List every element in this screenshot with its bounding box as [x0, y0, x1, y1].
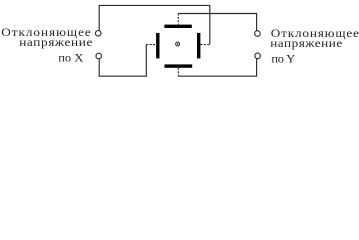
wire: dashed lead up into bottom plate: [177, 68, 179, 76]
label: Отклоняющее напряжение по X: [1, 26, 93, 65]
plate Y top (horizontal deflection plate): [164, 25, 191, 28]
plate X left (vertical deflection plate): [156, 33, 159, 59]
label: Отклоняющее напряжение по Y: [270, 27, 359, 66]
svg-text:по X: по X: [58, 51, 84, 64]
wire: dashed lead down into top plate: [177, 14, 179, 25]
plate X right (vertical deflection plate): [197, 33, 200, 59]
wire: terminal X1 up, across top, down to right plate: [99, 5, 210, 44]
svg-text:по Y: по Y: [271, 52, 295, 65]
plate Y bottom (horizontal deflection plate): [165, 64, 193, 67]
svg-text:напряжение: напряжение: [270, 37, 343, 50]
svg-text:напряжение: напряжение: [19, 36, 93, 49]
wire: terminal Y2 down, along bottom, to bottom plate lead: [178, 59, 256, 76]
wire: terminal X2 down, along bottom, up to left plate: [99, 45, 146, 77]
wire: terminal Y1 up, across to top plate lead: [178, 14, 256, 31]
wire: dashed stub into left plate: [146, 44, 156, 46]
terminal Y2 (bottom-right): [255, 53, 261, 59]
wire: dashed stub into right plate: [200, 44, 209, 46]
terminal Y1 (top-right): [255, 31, 261, 37]
electron beam symbol (circle with dot, beam out of page): [176, 42, 180, 46]
terminal X1 (top-left): [95, 31, 101, 37]
terminal X2 (bottom-left): [96, 53, 102, 59]
